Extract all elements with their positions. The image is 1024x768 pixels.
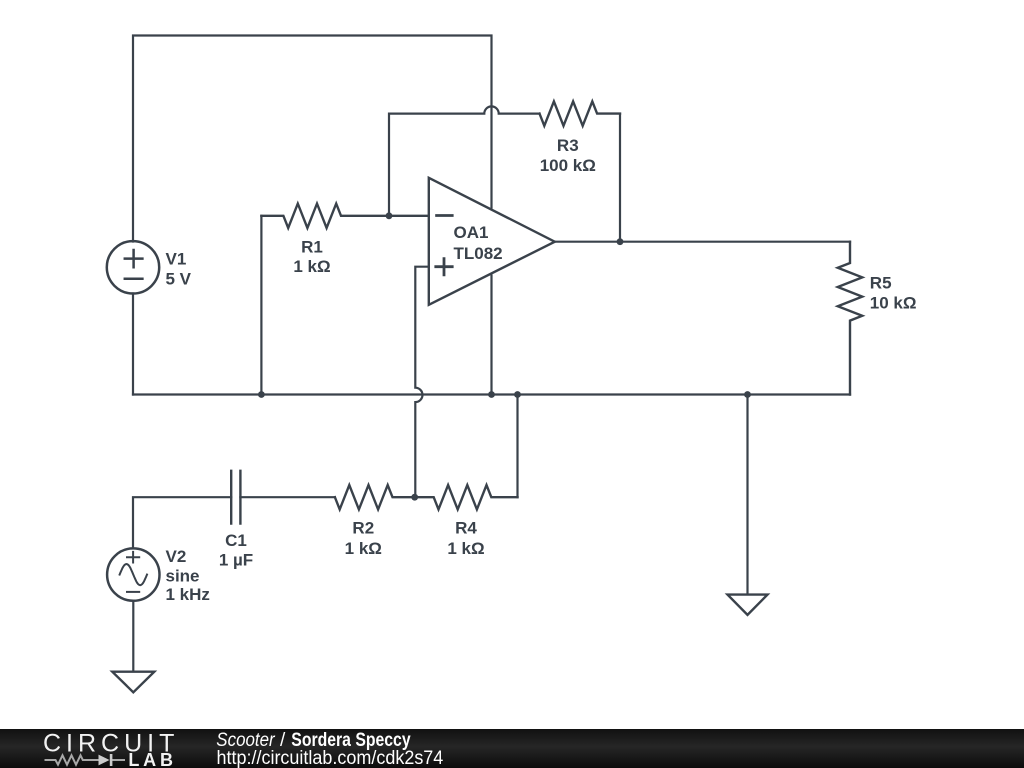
svg-text:R4: R4: [455, 518, 477, 537]
svg-text:C1: C1: [225, 531, 247, 550]
svg-text:R2: R2: [352, 518, 374, 537]
svg-text:http://circuitlab.com/cdk2s74: http://circuitlab.com/cdk2s74: [217, 748, 444, 768]
node: OA1 power / ground rail: [488, 391, 495, 398]
svg-text:5 V: 5 V: [166, 270, 192, 289]
capacitor C1: [231, 471, 240, 524]
node: output junction: [617, 238, 624, 245]
resistor R3: [540, 101, 621, 125]
wire: C1 right lead to R2: [240, 496, 335, 498]
svg-text:sine: sine: [166, 567, 200, 586]
svg-text:R3: R3: [557, 136, 579, 155]
wire: V1 bottom lead: [132, 294, 134, 395]
wire: feedback net from inverting node up and over to R3 (hop at x=491.5): [389, 106, 540, 215]
wire: C1 left lead to V2 top: [133, 497, 231, 548]
op-amp OA1: [429, 178, 555, 305]
voltage source V2: [107, 548, 159, 600]
resistor R5: [838, 242, 863, 395]
svg-text:1 kΩ: 1 kΩ: [293, 257, 330, 276]
svg-text:V2: V2: [166, 547, 187, 566]
ground symbol (V2): [112, 672, 154, 693]
svg-text:100 kΩ: 100 kΩ: [540, 156, 596, 175]
wire: ground rail (bottom): [133, 393, 850, 395]
svg-text:TL082: TL082: [454, 244, 503, 263]
resistor R4: [415, 485, 518, 509]
wire: V2 bottom lead to ground: [132, 601, 134, 672]
svg-text:10 kΩ: 10 kΩ: [870, 294, 917, 313]
node: R2/R4 junction: [411, 494, 418, 501]
wire: non-inverting input stub and leg down (hop at ground rail): [415, 267, 429, 498]
svg-text:OA1: OA1: [454, 223, 489, 242]
voltage source V1: [107, 241, 159, 293]
svg-text:1 µF: 1 µF: [219, 551, 253, 570]
node: ground stub / ground rail: [744, 391, 751, 398]
node: R1 leg / ground rail: [258, 391, 265, 398]
svg-text:1 kΩ: 1 kΩ: [447, 539, 484, 558]
svg-text:R5: R5: [870, 274, 892, 293]
resistor R1: [261, 204, 428, 228]
ground symbol (right): [728, 595, 768, 615]
wire: R4 right lead up to ground rail: [516, 395, 518, 498]
logo resistor-diode symbol: [45, 755, 126, 764]
wire: OA1 bottom power pin down to ground rail: [490, 276, 492, 395]
wire: R1 left leg down to ground rail: [260, 216, 262, 395]
wire: R3 right lead down to output node: [619, 114, 621, 242]
op-amp non-inverting input symbol: [436, 259, 452, 275]
svg-text:1 kHz: 1 kHz: [166, 585, 210, 604]
op-amp inverting input symbol: [437, 214, 453, 217]
resistor R2: [335, 485, 415, 509]
node: R4 leg / ground rail: [514, 391, 521, 398]
wire: ground stub at right: [746, 395, 748, 595]
wire: V+ rail from V1 top to OA1 top power pin: [133, 36, 492, 242]
svg-text:1 kΩ: 1 kΩ: [345, 539, 382, 558]
svg-text:R1: R1: [301, 237, 323, 256]
svg-text:LAB: LAB: [128, 750, 176, 768]
node: inverting input junction: [386, 212, 393, 219]
wire: output from OA1 to R5 top: [555, 241, 850, 243]
svg-text:V1: V1: [166, 250, 187, 269]
